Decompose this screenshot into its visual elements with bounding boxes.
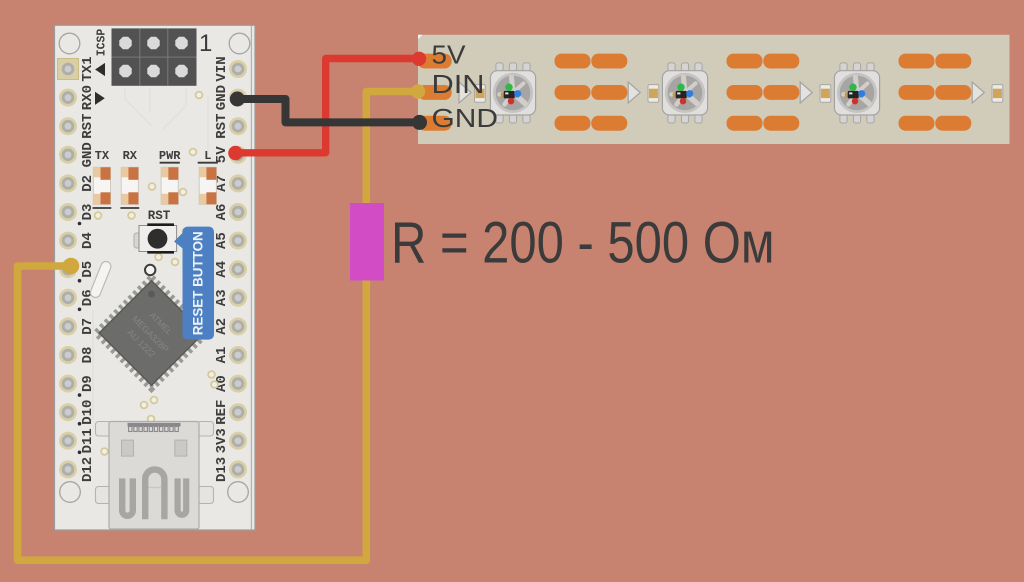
direction arrow 2 [628,82,640,103]
pin label RST [80,114,96,139]
svg-text:RX0: RX0 [80,85,96,110]
pin D3 (left column) [59,203,77,221]
pin label TX1 [80,56,96,81]
SMD resistor on strip 1 [475,85,486,103]
svg-text:5V: 5V [214,146,230,163]
svg-text:A2: A2 [214,318,230,335]
SMD resistor on strip 4 [992,85,1003,103]
pin A7 (right column) [229,174,247,192]
mini-USB connector [96,422,214,530]
solder pads between LED1 and LED2 [555,54,628,131]
svg-text:D5: D5 [80,261,96,278]
svg-text:TX1: TX1 [80,56,96,81]
silkscreen line at LED TX [93,207,112,209]
svg-text:A1: A1 [214,347,230,364]
svg-text:A3: A3 [214,289,230,306]
pin A6 (right column) [229,203,247,221]
LED TX [93,167,110,204]
svg-text:D7: D7 [80,318,96,335]
SMD resistor on strip 3 [820,85,831,103]
silkscreen traces [93,88,208,420]
svg-text:TX: TX [95,149,110,163]
svg-text:PWR: PWR [159,149,181,163]
svg-text:A6: A6 [214,204,230,221]
wire yellow: strip DIN down to resistor [366,92,418,206]
pin D8 (left column) [59,346,77,364]
pin GND (right column) [229,89,247,107]
svg-text:D12: D12 [80,457,96,482]
silkscreen line at LED PWR [160,162,180,164]
svg-text:A5: A5 [214,232,230,249]
ICSP header [112,28,197,85]
connection dot: strip DIN [411,84,425,98]
pin A5 (right column) [229,232,247,250]
svg-text:D9: D9 [80,375,96,392]
pin A1 (right column) [229,346,247,364]
svg-text:3V3: 3V3 [214,428,230,453]
svg-text:1: 1 [199,30,212,57]
wire yellow: resistor down, across bottom, up to D5 [18,266,367,560]
pin D2 (left column) [59,174,77,192]
svg-text:DIN: DIN [432,69,485,99]
pin label D5 [78,261,96,283]
svg-text:5V: 5V [432,40,467,70]
pin 5V (right column) [229,146,247,164]
direction arrow 3 [800,82,812,103]
direction arrow 4 [972,82,984,103]
wire red: Arduino 5V to strip 5V [236,59,420,153]
svg-text:RST: RST [80,114,96,139]
silkscreen line at LED RX [120,207,139,209]
connection dot: Arduino D5 pin [63,258,80,275]
pin RST (right column) [229,117,247,135]
mounting hole top-left [59,33,80,54]
pin D12 (left column) [59,460,77,478]
pin A3 (right column) [229,289,247,307]
svg-text:RST: RST [214,114,230,139]
connection dot: Arduino 5V pin [228,146,243,161]
mounting hole bottom-left [60,482,81,503]
svg-text:GND: GND [80,142,96,167]
pin label D11 [78,428,96,454]
svg-text:D3: D3 [80,204,96,221]
solder pads after LED3 [899,54,972,131]
pin D7 (left column) [59,317,77,335]
resistor R in DIN line [350,203,384,281]
pin D4 (left column) [59,232,77,250]
vias on PCB [95,92,218,455]
WS2812 RGB LED 1 [490,63,535,123]
svg-text:D8: D8 [80,347,96,364]
pin label D4 [80,232,96,249]
microcontroller ATMEGA328P (U1) [96,278,206,388]
svg-text:D13: D13 [214,457,230,482]
svg-text:R = 200 - 500 Ом: R = 200 - 500 Ом [391,211,775,276]
TX1 marker arrow [95,63,105,76]
silkscreen line at LED L [198,162,218,164]
pin RST (left column) [59,117,77,135]
connection dot: Arduino GND pin [230,92,245,107]
pin D13 (right column) [229,460,247,478]
LED PWR [161,167,178,204]
pin REF (right column) [229,403,247,421]
pin VIN (right column) [229,60,247,78]
pin label D2 [80,175,96,192]
svg-text:D10: D10 [80,400,96,425]
pin label D9 [78,375,96,397]
pin TX1 (left column) [59,60,77,78]
connection dot: strip GND [412,115,427,130]
pin label GND [80,142,96,167]
LED RX [121,167,138,204]
pin label D8 [80,347,96,364]
svg-text:RST: RST [148,209,171,223]
svg-text:L: L [204,149,211,163]
SMD resistor on strip 2 [648,85,659,103]
pin label D3 [78,204,96,226]
direction arrow 1 [459,82,471,103]
pin D9 (left column) [59,375,77,393]
svg-text:D11: D11 [80,428,96,453]
svg-text:RESET BUTTON: RESET BUTTON [191,231,206,335]
test point circle [145,265,155,275]
WS2812 RGB LED 2 [662,63,707,123]
svg-text:GND: GND [214,85,230,110]
RESET BUTTON callout flag [174,227,214,340]
WS2812 RGB LED 3 [834,63,879,123]
svg-text:GND: GND [432,103,499,133]
pin label RX0 [80,85,96,110]
pin label D10 [78,400,96,426]
pin D6 (left column) [59,289,77,307]
solder pads at strip input edge (5V, DIN, GND) [418,54,452,131]
reset pushbutton [134,225,177,253]
pin D5 (left column) [59,260,77,278]
mounting hole top-right [229,33,250,54]
pin D10 (left column) [59,403,77,421]
pin A0 (right column) [229,375,247,393]
WS2812 LED strip body [418,35,1010,144]
silkscreen edge line [250,26,252,530]
svg-text:RX: RX [123,149,138,163]
TX1 square pad [58,59,79,80]
svg-text:VIN: VIN [214,56,230,81]
pin 3V3 (right column) [229,432,247,450]
LED L [199,167,216,204]
pin RX0 (left column) [59,89,77,107]
svg-text:D4: D4 [80,232,96,249]
RX0 marker arrow [95,92,105,105]
Arduino Nano board [55,25,256,530]
pin D11 (left column) [59,432,77,450]
pin label D6 [78,289,96,311]
connection dot: strip 5V [412,52,426,66]
svg-text:REF: REF [214,400,230,425]
pin label D7 [80,318,96,335]
pin A4 (right column) [229,260,247,278]
wire black: Arduino GND to strip GND [238,99,420,122]
solder pads between LED2 and LED3 [727,54,800,131]
svg-text:A4: A4 [214,261,230,278]
pin label D12 [80,457,96,482]
mounting hole bottom-right [228,482,249,503]
pin A2 (right column) [229,317,247,335]
pin GND (left column) [59,146,77,164]
crystal oscillator [89,260,113,299]
svg-text:ICSP: ICSP [96,29,109,57]
